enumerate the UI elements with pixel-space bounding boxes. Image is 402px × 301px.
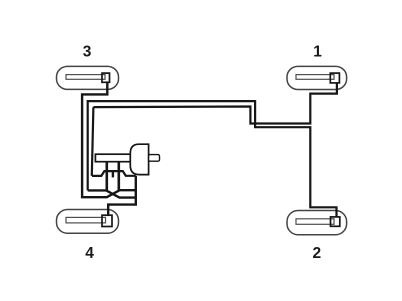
left vertical from proportioning valve up to wheel-1 run (slightly leaning) xyxy=(92,107,94,176)
brake pipe to wheel 2 (outer parallel run) xyxy=(88,101,337,217)
master cylinder outlet port (right) xyxy=(118,162,121,191)
brake pipe from wheel 3: down, left, down the left side, into X crossing, out upper-right xyxy=(82,83,136,198)
svg-text:2: 2 xyxy=(312,245,321,262)
brake pipe to wheel 1 (inner parallel run) xyxy=(93,83,337,123)
svg-text:3: 3 xyxy=(83,43,92,60)
wheel cylinder 3 (stadium, top-left) xyxy=(57,66,119,89)
master cylinder outlet port (left) xyxy=(106,162,109,191)
connector, wheel 2 xyxy=(331,217,340,226)
master cylinder body (bar) xyxy=(95,154,140,162)
connector outline, wheel 3 xyxy=(102,73,110,82)
connector outline, wheel 1 xyxy=(330,73,339,83)
connector outline, wheel 4 xyxy=(102,215,112,226)
connector, wheel 1 xyxy=(330,73,339,83)
wheel cylinder 1 (stadium, top-right) xyxy=(287,66,347,89)
wheel cylinder 2 (stadium, bottom-right) xyxy=(287,211,347,235)
connector outline, wheel 2 xyxy=(331,217,340,226)
inner bar, wheel 1 xyxy=(296,75,334,80)
inner bar, wheel 4 xyxy=(66,217,106,223)
proportioning valve profile (ramp-plateau-ramp) xyxy=(92,171,136,176)
connector, wheel 4 xyxy=(102,215,112,226)
inner bar, wheel 3 xyxy=(66,75,105,80)
svg-text:1: 1 xyxy=(313,43,322,60)
wheel cylinder 4 (stadium, bottom-left) xyxy=(57,210,119,234)
booster pushrod stub xyxy=(149,155,160,162)
inner bar, wheel 2 xyxy=(296,219,334,225)
pipe through X crossing: upper-left arm to lower-right arm, then to wheel 4 xyxy=(88,176,136,215)
brake booster (D-shape) xyxy=(130,144,148,174)
connector, wheel 3 xyxy=(102,73,110,82)
valve center tick xyxy=(112,171,114,178)
svg-text:4: 4 xyxy=(85,245,94,262)
